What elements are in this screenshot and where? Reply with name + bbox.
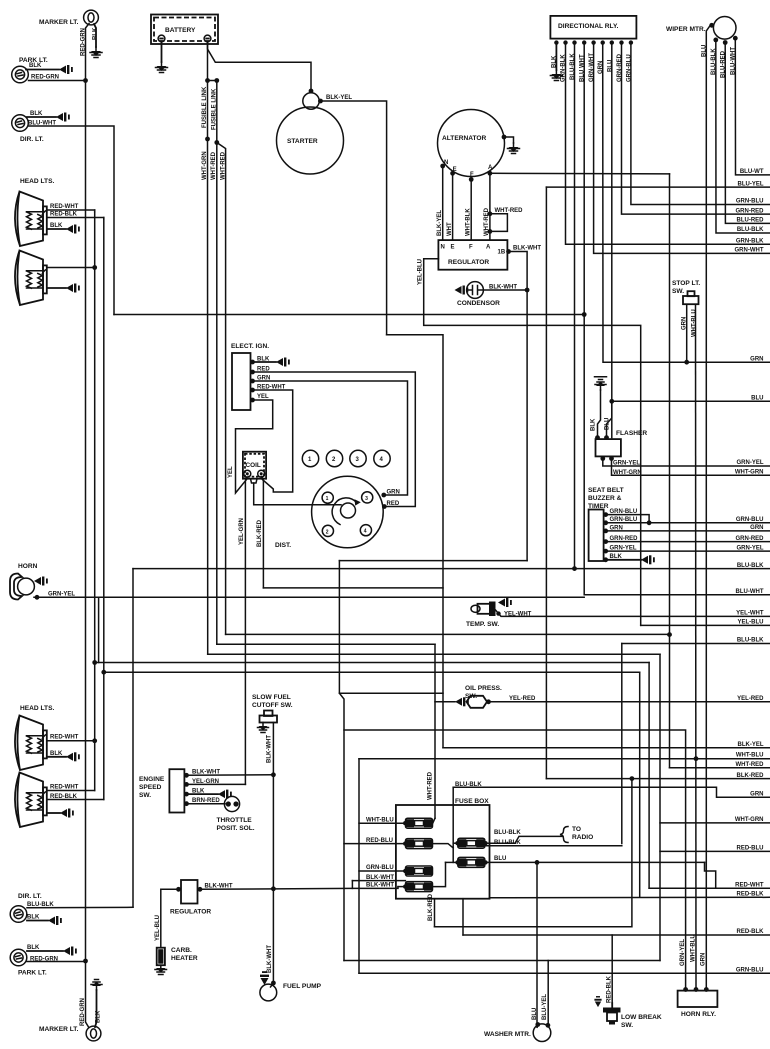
wire row 662.5 headlamp RED-WHT to right corner [95,662,649,664]
svg-text:ALTERNATOR: ALTERNATOR [442,135,487,142]
node washer BLU junction [535,860,540,865]
node fusible link bottom 2 [214,140,219,145]
svg-text:RED-GRN: RED-GRN [31,75,59,81]
node GRN-BLU junction [647,520,652,525]
svg-text:YEL-BLU: YEL-BLU [738,620,764,626]
svg-text:HORN: HORN [18,563,38,570]
node horn output [35,595,40,600]
svg-text:WHT-RED: WHT-RED [428,771,434,800]
svg-text:ELECT. IGN.: ELECT. IGN. [231,343,269,350]
connector park light 2 [63,947,77,956]
svg-text:RED: RED [387,501,400,507]
fuse box outline [396,805,490,899]
distributor cap contact 2 [322,525,333,536]
wire WHT-GRN exit from v660 [660,822,770,824]
svg-text:GRN-BLK: GRN-BLK [736,238,764,244]
wire oil press feed from WHT-RED trunk [434,644,436,818]
svg-text:BLU-BLK: BLU-BLK [494,830,521,836]
slow fuel cutoff switch body [260,711,278,723]
wire flasher BLK pin to ground [598,390,601,438]
node A-bus row 634 junction [667,632,672,637]
wire branch from horn row down to RED-WHT row [98,597,100,662]
SEC6: stop light switch, flasher, seat belt buzzer, temp/oil switches [133,280,770,990]
headlamp 1 [15,192,47,247]
wire oil press feed branch [435,701,455,703]
node RED-BLK trunk row junction [101,670,106,675]
directional relay box [550,16,636,39]
wire wiper BLU long bus down to horn relay [706,25,710,989]
svg-text:SLOW FUEL: SLOW FUEL [252,694,291,701]
node temp switch wire [496,611,500,615]
node wiper BLU [709,23,714,28]
wire BLU-BLK dir light 2 to v133 [27,906,133,909]
svg-text:RED-WHT: RED-WHT [50,735,79,741]
wire BLU-YEL long bus down [545,187,547,779]
svg-text:YEL-GRN: YEL-GRN [239,518,245,545]
wire slow fuel BLK-WHT down to fuel pump [272,723,274,984]
svg-text:BUZZER &: BUZZER & [588,495,622,502]
ground battery [156,62,168,73]
node flasher BLU pin [604,435,609,440]
wire BLK-RED riser from fuse box bottom [434,899,436,927]
node fusible link top 2 [214,78,219,83]
svg-text:BLU-RED: BLU-RED [737,218,765,224]
wire BLU staircase down to RED-WHT exit [705,862,716,888]
wire BLK-YEL row to right exit [443,747,770,749]
svg-text:YEL: YEL [257,394,269,400]
svg-text:RED-WHT: RED-WHT [50,204,79,210]
wire BLU-BLK exit row from corner [622,643,770,645]
wire fuel pump drop [271,983,274,987]
oil press switch hexagon [467,696,488,708]
fuel pump circle [260,984,277,1001]
fuel pump node [271,981,276,986]
wire WHT-GRN trunk [207,139,209,654]
node BLU row junction [609,399,614,404]
node RED-WHT trunk row junction [92,660,97,665]
svg-text:CUTOFF SW.: CUTOFF SW. [252,702,293,709]
wire condensor to bus [483,289,527,291]
svg-text:BLK-RED: BLK-RED [257,519,263,547]
wire fuse L3 left to GRN-BLU riser [359,870,405,872]
svg-text:DIRECTIONAL RLY.: DIRECTIONAL RLY. [558,23,619,30]
connector elect ign BLK [276,358,290,367]
wire fuse R1 to radio (upper) [485,836,563,843]
wire BLK-RED exit row [546,778,770,780]
wire fuse L4 upper left [352,880,405,882]
wire RED-WHT headlamp3 to trunk [48,740,95,742]
node washer BLU-YEL [546,1023,551,1028]
connector oil press switch [455,697,469,706]
wire BLK park light to connector [26,69,59,71]
wire F to regulator [470,179,472,240]
dir light 1 lamp [12,115,29,132]
wire v352 link [351,881,353,889]
node pin YEL-GRN [184,782,189,787]
wire fuse L2 right to feed [433,844,454,848]
connector horn [34,577,48,586]
connector on park light BLK [59,65,73,74]
connector dir light 2 [48,916,62,925]
svg-text:BLK-RED: BLK-RED [428,893,434,921]
svg-text:GRN-RED: GRN-RED [736,536,765,542]
svg-text:GRN-BLU: GRN-BLU [736,517,764,523]
wire RED to distributor via right side [253,372,416,507]
node pin GRN-RED [603,539,608,544]
wire BLK from marker light to ground [94,24,96,47]
node on BLU-WHT bus [582,312,587,317]
coil terminal right [258,470,265,477]
wire BLK dir light to connector [27,116,56,118]
wire WHT-RED 2 trunk (branch) [217,143,226,635]
wire row 644.2 WHT-RED2 to oil feed corner [217,643,435,645]
wire RED-GRN park light 2 to trunk [27,961,86,963]
node BLK-YEL at solenoid [318,99,323,104]
wire row 672.2 headlamp RED-BLK to right corner [104,671,640,673]
svg-text:E: E [451,245,455,251]
svg-text:WHT-GRN: WHT-GRN [735,470,764,476]
wire GRN-WHT bus to right exit [594,43,770,254]
node GRN row junction [684,360,689,365]
node horn relay WHT-BLU [694,987,699,992]
wire RED-WHT headlamp1 to trunk [48,210,95,212]
node fuse L4 left [403,884,407,888]
svg-text:TEMP. SW.: TEMP. SW. [466,621,499,628]
wire BLK headlamp1 to ground connector [48,228,66,230]
node fuse L3 left [403,869,407,873]
svg-text:STOP LT.: STOP LT. [672,280,700,287]
wire row 730 to horn relay GRN-YEL [344,730,686,990]
headlamp 3 [15,716,47,771]
wire pin BLK to connector [606,559,641,561]
node pin GRN-BLU 1 [603,512,608,517]
svg-text:HORN RLY.: HORN RLY. [681,1011,716,1018]
node horn relay WHT-BLU junction [694,756,699,761]
radio brace [560,827,568,843]
wire flasher GRN-YEL to right exit [603,456,770,466]
wire row 654.2 WHT-GRN to right corner [208,653,660,655]
wire RED-WHT headlamp4 end of trunk [48,790,95,792]
ground connector headlamp2 [66,284,80,293]
svg-text:BLU-BLK: BLU-BLK [455,782,482,788]
wire RED-BLK exit row [490,896,770,899]
svg-text:YEL-BLU: YEL-BLU [155,915,161,941]
svg-text:SEAT BELT: SEAT BELT [588,487,624,494]
wire YEL-BLU exit row [641,624,770,626]
svg-text:CARB.: CARB. [171,947,192,954]
svg-text:MARKER LT.: MARKER LT. [39,19,79,26]
wire RED-BLK headlamp1 to trunk [48,218,104,220]
svg-text:FUEL PUMP: FUEL PUMP [283,983,322,990]
fuse R1 BLU-BLK [458,838,485,848]
svg-text:HEAD LTS.: HEAD LTS. [20,705,54,712]
headlamp 4 [15,773,47,828]
wire v649 down to RED-WHT exit [648,663,650,889]
svg-text:COIL: COIL [246,462,261,469]
svg-text:SW.: SW. [672,288,684,295]
SEC7: horn, middle rows, switches, lower headlamps [10,561,770,1025]
wire WHT-BLU corner down to fuse [358,759,360,974]
wire N to regulator [442,166,444,240]
wire fuse L4 right riser [433,862,446,886]
node flasher BLK pin [595,435,600,440]
spark plug 2 [326,450,342,466]
carb heater element [157,948,165,966]
distributor rotor arc [332,498,356,525]
node fusible link top 1 [205,78,210,83]
svg-text:DIST.: DIST. [275,542,291,549]
relay pin GRN-RED node [619,40,623,44]
wire pin BLK to connector [187,793,219,795]
ground marker light 2 (inverted above) [91,980,102,991]
svg-text:DIR. LT.: DIR. LT. [20,136,44,143]
starter motor [277,107,344,174]
svg-text:BLU-BLK: BLU-BLK [737,563,764,569]
wire battery negative to ground [161,42,163,62]
relay pin GRN-BLK node [563,40,567,44]
svg-text:GRN: GRN [750,356,763,362]
svg-text:BLK-WHT: BLK-WHT [267,735,273,763]
distributor cap contact 1 [322,492,333,503]
wire BLK to connector [253,361,277,363]
seat belt buzzer box [589,510,604,562]
svg-text:FUSIBLE LINK: FUSIBLE LINK [212,88,218,130]
wire GRN-BLK bus to right exit [566,43,770,245]
node park light junction [83,78,88,83]
engine speed switch box [169,769,184,812]
wire BLK park light 2 to connector [27,950,63,952]
node regulator 2 right [198,887,203,892]
wire stop switch WHT-BLU down to horn relay [695,305,698,990]
svg-text:FUSE BOX: FUSE BOX [455,798,489,805]
wire flasher BLU pin up to BLU bus [607,401,612,437]
svg-text:GRN-YEL: GRN-YEL [680,939,686,966]
svg-text:BLK-WHT: BLK-WHT [267,945,273,973]
wire pin GRN-YEL to right exit [606,550,770,552]
svg-text:POSIT. SOL.: POSIT. SOL. [217,825,255,832]
coil box [243,452,266,479]
node WHT-RED loop bottom [488,229,493,234]
fuse L4 BLK-WHT [406,882,433,892]
svg-text:BLU: BLU [494,856,506,862]
svg-text:SW.: SW. [139,792,151,799]
battery positive terminal [204,35,211,42]
wire RED-BLK trunk (left vertical) [103,218,105,800]
distributor body [312,476,384,548]
wire v660 down right side [659,654,661,960]
svg-text:GRN-WHT: GRN-WHT [735,248,764,254]
wire GRN-BLU exit row [359,972,770,974]
wire stop switch GRN down to GRN row [686,305,688,363]
starter solenoid [303,93,319,109]
wire fuse R2 left link [446,861,458,863]
SEC1: top-left lamps [12,10,587,960]
wire WHT-RED loop [490,214,508,232]
svg-text:GRN-RED: GRN-RED [736,208,765,214]
wire row 634.4 WHT-RED to A-bus [226,633,670,635]
wire battery positive to starter [208,42,312,93]
wire wiper BLU-BLK to right exit [716,40,770,233]
SEC3: alternator, regulator, condensor [418,110,670,626]
node pin GRN [603,529,608,534]
wire WHT-RED exit from A-bus [670,767,770,769]
svg-text:RED-WHT: RED-WHT [50,785,79,791]
node alternator ground terminal [502,135,507,140]
node WHT-RED loop top [488,211,493,216]
svg-text:WHT-BLU: WHT-BLU [691,309,697,337]
wire BLK headlamp4 to ground connector [48,812,60,814]
svg-text:GRN: GRN [750,525,763,531]
node A [488,171,493,176]
wire v639.7 down to RED-BLK exit [639,672,641,897]
svg-text:A: A [486,245,491,251]
wire row 560.6 regulator blk-wht to v344 [339,560,527,562]
node pin BLK [184,792,189,797]
node RED-WHT trunk [92,265,97,270]
wire RED-WHT headlamp2 to trunk node [48,267,95,269]
wire GRN-BLU bus to right exit [631,43,770,205]
svg-text:GRN-YEL: GRN-YEL [737,545,764,551]
wire BLU-WHT dir light right then down [29,126,115,315]
ground alternator [508,143,520,154]
wire BLU-WHT horizontal run to directional relay bus [114,314,584,316]
connector temp switch [498,598,512,607]
svg-text:BLK: BLK [590,418,596,431]
wire BLU-BLK feed down into box [452,787,454,862]
svg-text:LOW BREAK: LOW BREAK [621,1014,662,1021]
fusible link 2 branch [208,81,217,143]
svg-text:BLU-BLK: BLU-BLK [494,840,521,846]
node pin BLK-WHT [184,773,189,778]
ground carb heater [155,965,167,974]
wire A terminal output to right bus [490,172,670,175]
wire BLK dir light 2 to connector [27,920,48,922]
wire BLK-YEL from starter right then down [319,101,387,335]
wire BLK-RED bottom run to right [263,587,443,589]
node flasher GRN-YEL pin [600,456,605,461]
node starter top [309,89,314,94]
wire v463 from fuse box bottom [462,899,464,935]
svg-text:WHT-BLU: WHT-BLU [736,753,764,759]
wire fuse L1 left [359,822,405,824]
node wiper BLU-RED [723,40,728,45]
node N [440,164,445,169]
wire pin BRN-RED to throttle solenoid [187,803,226,805]
wire fuse R2 BLU row to right [485,861,705,863]
wire pin GRN-RED to right exit [606,541,770,543]
wire fuse R1 left to feed [453,842,457,844]
svg-text:A: A [488,165,493,171]
elect ign box [232,353,251,410]
node washer BLU [535,1022,540,1027]
wire BLU-BLK long row [133,568,770,570]
wire flasher WHT-GRN to right exit [612,456,770,475]
svg-text:SW.: SW. [621,1022,633,1029]
wire YEL-BLU from regulator left [424,259,641,626]
wire BLU-YEL exit from long bus [546,186,770,188]
wire BLU-BLK corner down to fuse box [621,644,623,844]
node fusible link bottom 1 [205,137,210,142]
wire BLK headlamp3 to ground connector [48,756,66,758]
svg-text:BLU-BLK: BLU-BLK [737,227,764,233]
wire regulator 2 BLK-WHT row to fuse L4 [200,887,398,890]
svg-text:HEATER: HEATER [171,955,198,962]
wire YEL-GRN from coil left terminal down [245,477,246,784]
svg-text:3: 3 [365,496,368,502]
node BLK-WHT row junction [271,772,276,777]
connector fuel pump [260,971,269,985]
wire BLK pin to ground [555,43,557,70]
fuse L1 WHT-BLU [406,818,433,828]
wire GRN bus down to exit [603,43,770,363]
svg-text:1B: 1B [498,250,506,256]
node pin GRN-BLU 2 [603,520,608,525]
relay pin BLU-WHT node [582,40,586,44]
svg-text:WASHER MTR.: WASHER MTR. [484,1031,531,1038]
SEC5: electronic ignition, coil, distributor [228,343,443,784]
SEC9: bottom left lamps, washer motor, low break switch, horn relay [10,862,717,1041]
svg-text:BLU-YEL: BLU-YEL [542,994,548,1020]
wire temp switch YEL-WHT to right exit [496,610,770,616]
svg-text:GRN-BLU: GRN-BLU [736,199,764,205]
wire BLU-BLK bus down to lower row [574,43,576,569]
svg-text:SPEED: SPEED [139,784,162,791]
coil HT tower [251,479,258,483]
wire fuse L4 left link [398,886,405,888]
svg-text:BATTERY: BATTERY [165,27,196,34]
svg-text:BLU-WHT: BLU-WHT [736,589,764,595]
node park light 2 junction [83,959,88,964]
wire RED-WHT exit row [649,887,770,889]
node GRN at distributor [381,493,386,498]
wire RED-WHT trunk (left vertical) [94,210,96,791]
svg-text:GRN-YEL: GRN-YEL [737,460,764,466]
node horn relay GRN [704,987,709,992]
wire pin GRN to right exit [606,530,770,532]
svg-text:YEL-WHT: YEL-WHT [736,611,764,617]
ground connector headlamp4 [60,809,74,818]
svg-text:WIPER MTR.: WIPER MTR. [666,26,706,33]
flasher box [596,439,621,456]
wire wiper BLU-WHT to right exit [735,38,770,175]
wire BLK-YEL jog right [387,335,443,748]
svg-text:BLK-WHT: BLK-WHT [513,246,541,252]
relay pin GRN-BLU node [629,40,633,44]
wire battery positive down to fusible links [207,42,209,139]
washer motor [533,1024,551,1042]
svg-text:STARTER: STARTER [287,138,318,145]
node BLK-WHT at regulator row [271,886,276,891]
wire BLU-WHT bus down to exit [584,43,770,595]
node fuse R2 right [483,860,487,864]
wire washer BLU up to fuse row [536,862,539,1028]
node regulator 2 left [176,887,181,892]
node RED-WHT trunk lamp3 [92,738,97,743]
node condensor junction [525,288,530,293]
svg-text:REGULATOR: REGULATOR [448,259,489,266]
wire YEL to coil left terminal [236,400,273,493]
distributor cap contact 4 [360,525,371,536]
marker light 1 lamp [84,10,99,25]
spark plug 3 [350,450,366,466]
node wiper BLU-WHT [733,36,738,41]
ground slow fuel cutoff [258,723,269,733]
wire v631.9 down to fuse BLK-RED [435,779,632,927]
temp switch symbol [471,602,496,617]
svg-text:PARK LT.: PARK LT. [18,970,47,977]
node BLU-BLK joins row [572,566,577,571]
svg-text:F: F [469,245,473,251]
